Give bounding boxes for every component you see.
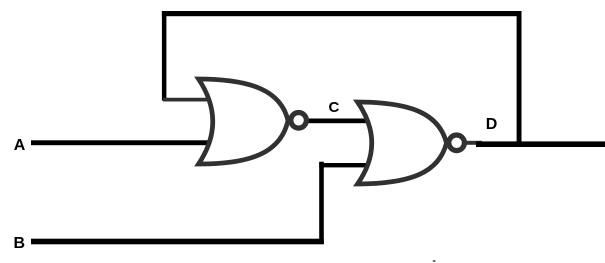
- svg-text:C: C: [329, 99, 340, 116]
- wire: B to U2 lower input: [319, 163, 367, 167]
- wire: U2 output stub: [466, 141, 482, 145]
- wire: feedback top horizontal (D to U1 input): [162, 11, 522, 16]
- wire: B vertical riser: [319, 162, 324, 244]
- svg-text:D: D: [486, 116, 498, 133]
- wire: input A horizontal: [31, 140, 212, 145]
- NOR gate U1 body: [199, 79, 289, 164]
- svg-text:B: B: [14, 235, 26, 252]
- stray ink speck (artifact): [433, 260, 436, 262]
- NOR gate U1 inversion bubble: [291, 113, 307, 129]
- wire: feedback left vertical: [162, 11, 167, 101]
- NOR gate U2 body: [358, 102, 447, 184]
- wire: input B horizontal: [31, 239, 324, 245]
- wire: U1 upper input stub: [163, 98, 213, 102]
- wire: output D horizontal: [476, 141, 605, 147]
- wire: feedback right vertical: [517, 11, 522, 147]
- NOR gate U2 inversion bubble: [449, 135, 465, 151]
- wire: node C (U1 output to U2 input): [307, 119, 368, 124]
- svg-text:A: A: [14, 137, 26, 154]
